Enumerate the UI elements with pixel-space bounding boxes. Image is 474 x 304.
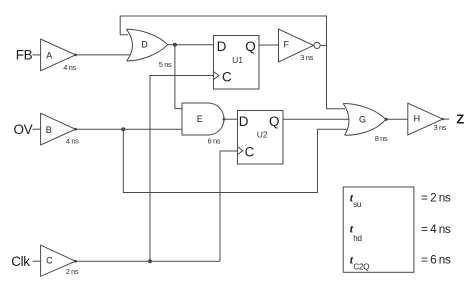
svg-text:OV: OV [14,122,33,137]
svg-text:FB: FB [16,48,33,63]
wire U2 Q output to OR G middle input [283,118,349,120]
svg-text:8 ns: 8 ns [375,134,388,143]
svg-text:= 4 ns: = 4 ns [421,222,451,236]
OR gate D [126,29,167,61]
wire D output to U1 D input [168,44,214,46]
dot at buffer A tip [74,54,77,57]
wire D output branch down to AND E top input [175,45,182,109]
wire clock branch to U1 C input [150,76,213,262]
svg-text:Clk: Clk [11,254,30,269]
dot at OR G tip [385,118,388,121]
svg-text:C: C [222,69,232,84]
wire H output to Z [443,118,450,120]
svg-text:= 6 ns: = 6 ns [421,253,451,267]
buffer C [41,245,76,276]
junction dot on OV line [121,127,125,131]
svg-text:D: D [217,39,227,54]
wire B output to AND E lower input [76,128,183,130]
wire F output feedback to OR D top input [120,16,326,45]
buffer B [41,113,76,145]
wire U1 Q output to inverter F [259,44,279,46]
timing parameter box [343,187,414,272]
svg-text:hd: hd [353,234,362,243]
wire E output to U2 D input [224,118,238,120]
svg-text:D: D [141,40,148,50]
junction dot at OR D output [173,43,177,47]
svg-text:= 2 ns: = 2 ns [421,190,451,204]
wire clock branch to U2 C input [220,151,237,261]
svg-text:Q: Q [269,114,280,129]
dot at buffer H tip [442,118,444,120]
dot at buffer B tip [74,128,77,131]
svg-text:Q: Q [245,39,256,54]
flip-flop U2 [238,111,284,165]
wire A output to OR D lower input [76,54,131,56]
svg-text:4 ns: 4 ns [63,63,76,72]
svg-text:3 ns: 3 ns [300,53,313,62]
svg-text:6 ns: 6 ns [208,137,221,146]
inverter F [279,29,314,62]
dot at buffer C tip [74,260,77,263]
wire G output to buffer H [386,118,408,120]
svg-text:F: F [284,40,290,50]
svg-text:E: E [197,114,203,124]
svg-text:Z: Z [456,112,464,127]
flip-flop U1 [214,36,260,90]
svg-text:H: H [414,114,421,124]
buffer H [408,103,443,135]
inverter F bubble [314,42,320,48]
OR gate G [343,104,386,136]
dot at AND E tip [223,118,226,121]
svg-text:C: C [46,255,53,265]
wire OV branch to OR G bottom input [123,129,346,192]
svg-text:U2: U2 [257,130,268,140]
svg-text:G: G [359,114,366,124]
U2 clock wedge [238,147,243,155]
svg-text:2 ns: 2 ns [66,267,79,276]
U1 clock wedge [214,72,219,80]
AND gate E [182,103,224,135]
wire F output down to OR G top input [327,45,346,108]
svg-text:B: B [46,125,52,135]
svg-text:U1: U1 [232,55,243,65]
svg-text:su: su [353,200,361,209]
wire C output clock trunk [76,260,221,262]
svg-text:5 ns: 5 ns [159,60,172,69]
svg-text:4 ns: 4 ns [66,136,79,145]
svg-text:C2Q: C2Q [353,263,369,272]
buffer A [41,39,76,71]
svg-text:C: C [245,144,255,159]
junction dot on Clk line [148,259,152,263]
svg-text:D: D [239,114,249,129]
svg-text:3 ns: 3 ns [434,123,447,132]
wire OV input stub [33,128,41,130]
wire Clk input stub [33,260,41,262]
svg-text:A: A [46,51,52,61]
wire FB input stub [33,54,41,56]
